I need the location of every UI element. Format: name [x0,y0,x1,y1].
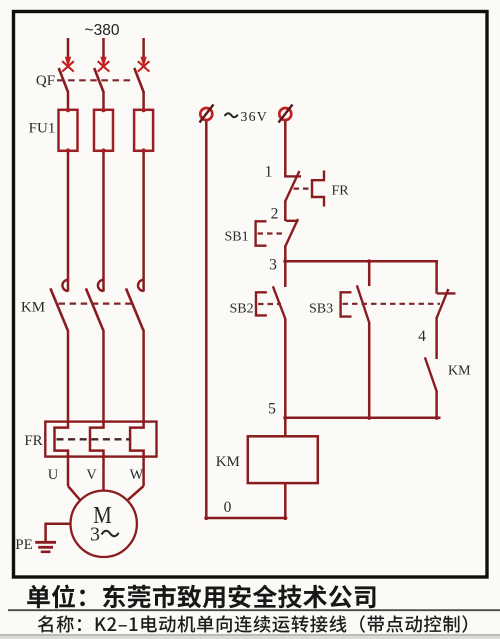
breaker QF pole 1 X mark [62,61,74,71]
breaker QF pole 1 blade [59,68,68,92]
motor M circle [71,491,137,557]
breaker QF pole 3 blade [134,68,143,92]
thermal overload FR box [45,422,156,457]
svg-text:FR: FR [24,433,42,449]
bottom grey bar [0,634,500,636]
contactor KM main pole 2 hook terminal [98,280,104,291]
wire W to motor [127,486,144,501]
pushbutton SB1 blade [285,219,298,247]
SB3 NC contact blade [437,289,449,318]
svg-text:4: 4 [418,328,426,345]
svg-text:~380: ~380 [85,22,120,39]
svg-text:0: 0 [224,499,232,516]
svg-text:PE: PE [15,537,33,553]
svg-text:3: 3 [269,257,277,274]
junction dots fuse pole 1 [66,108,70,112]
wire L2 incoming feeder [102,38,105,59]
terminal X1 [200,108,212,120]
contactor KM main pole 3 hook terminal [138,280,144,291]
pushbutton SB2 upper wire [284,261,287,287]
svg-text:QF: QF [36,73,55,89]
wire fuse pole 2 through [102,150,105,292]
svg-text:SB3: SB3 [309,302,333,317]
wire QF pole 3 to fuse [142,91,145,111]
wire NC contact to KM aux [435,317,438,359]
svg-text:2: 2 [271,206,279,223]
svg-text:SB1: SB1 [225,230,249,245]
wire QF pole 1 to fuse [67,91,70,111]
title underline [8,609,500,611]
wire node 5 to coil [284,418,287,437]
FR NC contact seat [286,175,301,177]
svg-text:KM: KM [216,454,240,470]
wire QF pole 2 to fuse [102,91,105,111]
contactor KM aux blade [425,357,437,392]
arrowhead L2 [101,57,106,65]
svg-text:5: 5 [268,401,276,418]
label ~36V [225,113,238,117]
wire U to motor [68,486,81,501]
breaker QF pole 2 X mark [98,61,110,71]
svg-text:FU1: FU1 [29,121,56,137]
QF mechanical link dashed [57,79,135,81]
junction dots fuse pole 2 [102,108,106,112]
arrowhead L1 [66,57,71,65]
wire from X2 to FR contact [284,121,287,178]
breaker QF pole 2 blade [94,68,103,92]
contactor KM main pole 2 blade [86,288,103,330]
SB1 dashed link [258,232,284,234]
wire KM pole 3 down to FR [130,330,144,486]
pushbutton SB2 blade [273,286,286,319]
contactor KM main pole 1 hook terminal [62,280,68,291]
svg-text:SB2: SB2 [230,302,254,317]
ground PE wire [46,524,71,542]
wire rail node 5 [284,417,441,420]
SB3 long dashed link to NC contact [343,303,441,305]
svg-text:KM: KM [448,364,471,379]
wire rail node 3 [284,260,438,263]
wire SB2 to node 5 [284,319,287,419]
FR contact dashed link [294,188,312,190]
wire L1 incoming feeder [67,38,70,59]
wire fuse pole 1 through [67,150,70,292]
svg-text:36V: 36V [241,109,268,124]
pushbutton SB1 seat [286,220,299,222]
FR heater element symbol [312,171,324,207]
wire SB3 to node 5 [368,323,371,418]
fuse FU1 pole 1 [59,110,78,151]
FR heater dashed link [57,438,131,440]
pushbutton SB3 plunger [341,292,352,316]
pushbutton SB1 plunger [256,221,267,245]
junction dots [283,259,287,263]
wire V to motor [102,486,105,491]
wire fuse pole 3 through [142,150,145,292]
contactor KM main pole 1 blade [50,288,67,330]
svg-text:3: 3 [90,524,100,546]
wire right branch from node 3 [435,261,438,294]
pushbutton SB3 blade [357,285,370,323]
wire left control rail down to node 0 [206,121,285,519]
arrowhead L3 [141,57,146,65]
fuse FU1 pole 3 [134,110,153,151]
SB2 dashed link [258,303,281,305]
junction dots fuse pole 3 [142,108,146,112]
ground PE symbol [35,541,56,544]
wire L3 incoming feeder [142,38,145,59]
contactor KM main pole 3 blade [126,288,143,330]
wire KM pole 1 down to FR [55,330,69,486]
wire coil to node 0 [284,482,287,518]
pushbutton SB3 upper wire [368,261,371,286]
company title line [27,585,375,609]
wire KM aux to node 5 [435,392,438,420]
wire node 2 to node 3 [284,246,287,263]
svg-text:U: U [48,467,59,483]
svg-text:1: 1 [265,164,273,181]
pushbutton SB2 plunger [256,292,267,315]
KM main mechanical link dashed [59,303,136,305]
svg-text:V: V [86,467,97,483]
wire node 1 to node 2 [284,201,287,222]
fuse FU1 pole 2 [94,110,113,151]
svg-text:KM: KM [21,300,45,316]
FR NC contact blade [285,171,300,202]
name line [38,615,467,633]
wire KM pole 2 down to FR [90,330,104,486]
contactor coil KM [248,436,318,483]
terminal X2 [279,108,291,120]
SB3 NC contact seat [437,292,456,294]
svg-text:FR: FR [332,184,350,199]
svg-text:W: W [130,467,144,483]
breaker QF pole 3 X mark [138,61,150,71]
